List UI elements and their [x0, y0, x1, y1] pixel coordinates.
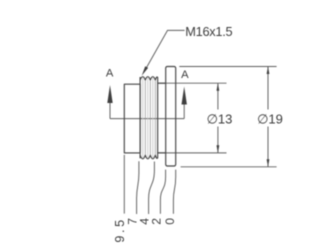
svg-text:∅19: ∅19 [257, 111, 283, 126]
svg-text:∅13: ∅13 [207, 111, 233, 126]
svg-text:0: 0 [163, 218, 177, 225]
svg-text:A: A [181, 69, 189, 81]
svg-text:2: 2 [149, 218, 163, 225]
svg-text:M16x1.5: M16x1.5 [185, 24, 232, 39]
svg-text:A: A [106, 68, 114, 80]
